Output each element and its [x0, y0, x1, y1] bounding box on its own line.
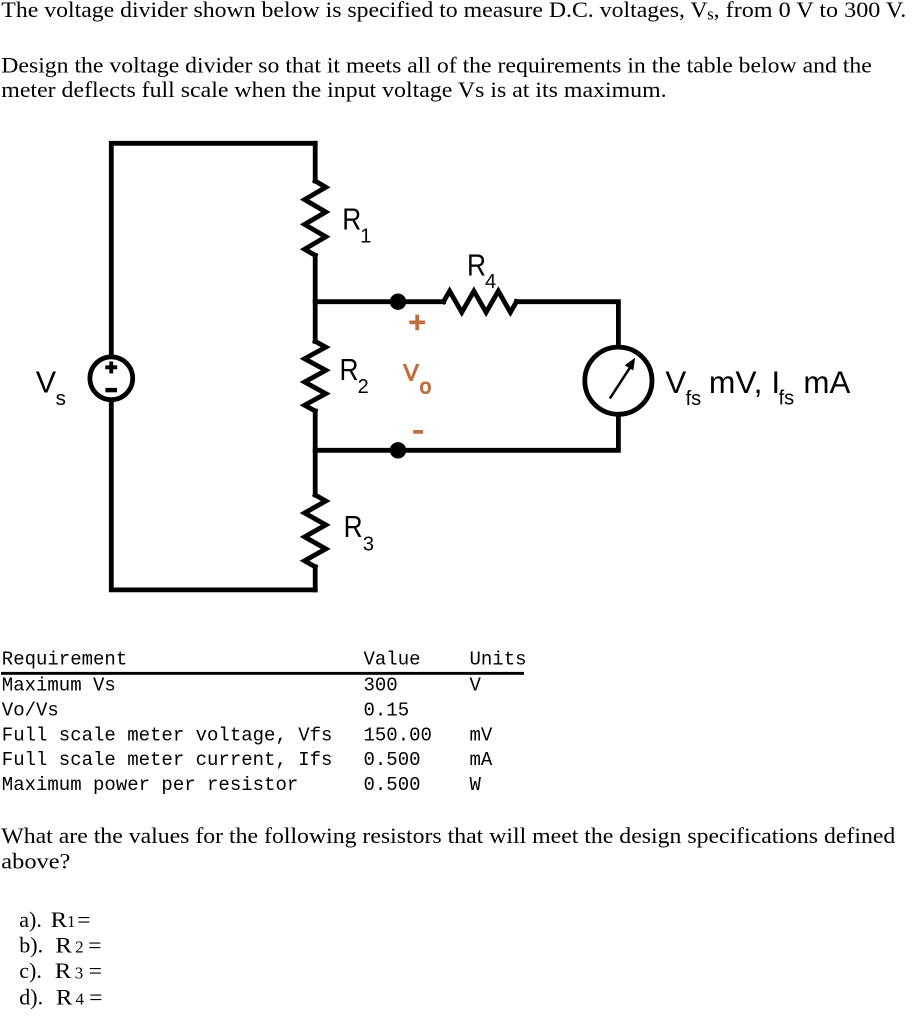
svg-text:c).: c).: [19, 958, 42, 983]
svg-text:s: s: [56, 387, 66, 410]
svg-text:0.500: 0.500: [364, 749, 421, 771]
svg-text:The voltage divider shown belo: The voltage divider shown below is speci…: [1, 0, 707, 22]
svg-text:meter deflects full scale when: meter deflects full scale when the input…: [1, 77, 666, 102]
svg-text:W: W: [470, 774, 482, 796]
svg-text:Units: Units: [470, 648, 527, 670]
svg-text:4: 4: [485, 271, 496, 293]
svg-text:, from 0 V to 300 V.: , from 0 V to 300 V.: [714, 0, 907, 22]
svg-text:mV, I: mV, I: [709, 365, 780, 400]
svg-text:R: R: [55, 958, 72, 983]
svg-text:What are the values for the fo: What are the values for the following re…: [1, 823, 895, 848]
svg-text:1: 1: [360, 225, 371, 247]
svg-text:b).: b).: [19, 932, 43, 957]
svg-text:300: 300: [364, 675, 398, 697]
svg-text:Design the voltage divider so: Design the voltage divider so that it me…: [1, 53, 871, 78]
svg-text:Requirement: Requirement: [2, 648, 127, 670]
svg-text:1: 1: [67, 912, 76, 931]
svg-text:fs: fs: [779, 388, 795, 410]
svg-text:Full scale meter current, Ifs: Full scale meter current, Ifs: [2, 749, 333, 771]
svg-text:Maximum Vs: Maximum Vs: [2, 675, 116, 697]
svg-text:4: 4: [76, 990, 85, 1009]
svg-text:Maximum power per resistor: Maximum power per resistor: [2, 774, 298, 796]
svg-text:R: R: [467, 248, 486, 282]
svg-text:0.500: 0.500: [364, 774, 421, 796]
svg-text:V: V: [36, 366, 57, 400]
svg-text:=: =: [89, 958, 102, 983]
svg-text:2: 2: [75, 938, 84, 957]
svg-text:R: R: [340, 353, 359, 387]
svg-text:=: =: [77, 907, 90, 932]
svg-text:d).: d).: [19, 984, 43, 1009]
svg-text:R: R: [51, 907, 68, 932]
svg-text:150.00: 150.00: [364, 724, 432, 746]
svg-text:Vo/Vs: Vo/Vs: [2, 699, 59, 721]
svg-text:0.15: 0.15: [364, 699, 410, 721]
svg-text:R: R: [344, 510, 363, 544]
svg-text:above?: above?: [1, 848, 70, 873]
svg-text:=: =: [88, 932, 101, 957]
svg-text:mA: mA: [470, 749, 493, 771]
svg-text:mV: mV: [470, 724, 493, 746]
svg-text:V: V: [470, 675, 482, 697]
svg-text:a).: a).: [19, 907, 42, 932]
svg-text:R: R: [342, 202, 361, 236]
svg-text:o: o: [420, 375, 432, 398]
svg-text:3: 3: [75, 963, 84, 982]
svg-text:fs: fs: [686, 388, 702, 410]
svg-text:Full scale meter voltage, Vfs: Full scale meter voltage, Vfs: [2, 724, 333, 746]
svg-text:3: 3: [363, 534, 374, 556]
svg-text:2: 2: [358, 376, 369, 398]
svg-text:V: V: [403, 360, 419, 386]
svg-text:V: V: [665, 365, 686, 400]
svg-text:Value: Value: [364, 648, 421, 670]
svg-text:mA: mA: [803, 365, 850, 400]
svg-text:R: R: [56, 984, 73, 1009]
svg-text:R: R: [55, 932, 72, 957]
svg-text:=: =: [89, 984, 102, 1009]
